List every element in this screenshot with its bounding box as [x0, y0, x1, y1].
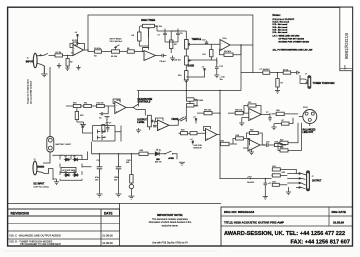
svg-text:LEVEL: LEVEL	[137, 122, 145, 124]
svg-text:R?: R?	[282, 120, 284, 122]
resistor Rt	[283, 70, 296, 75]
wire light to jack	[43, 152, 50, 163]
svg-text:R9: R9	[174, 44, 176, 46]
battery sense wire	[49, 67, 51, 137]
svg-text:R6: R6	[127, 48, 129, 50]
resistor R19	[186, 91, 203, 102]
wire net treble	[171, 31, 220, 56]
svg-text:Notes:: Notes:	[273, 13, 281, 17]
svg-text:TUNER THROUGH: TUNER THROUGH	[313, 82, 335, 85]
capacitor C4	[94, 48, 110, 58]
resistor R8 vertical	[132, 26, 141, 46]
node junction at x88	[87, 49, 88, 50]
svg-text:R27: R27	[280, 139, 283, 141]
svg-text:D2: D2	[73, 156, 75, 158]
op-amp IC1a	[71, 43, 88, 56]
+V arrow mid	[202, 67, 206, 75]
svg-text:LK / : WIRE LINK ON DRG: LK / : WIRE LINK ON DRG	[273, 35, 300, 37]
feedback rail wire top	[88, 15, 253, 73]
svg-text:+C?: +C?	[268, 183, 272, 185]
node out IC5b	[263, 144, 264, 145]
battery light BL1	[47, 137, 72, 153]
drawing number vertical box	[340, 7, 353, 70]
node A junction	[67, 55, 68, 56]
resistor R28	[278, 123, 302, 152]
feedback resistor R24	[233, 135, 250, 145]
svg-text:R1 1M: R1 1M	[56, 52, 62, 54]
svg-text:IC5 : Not used: IC5 : Not used	[273, 28, 288, 31]
svg-text:9-18V 75m cA Reg: 9-18V 75m cA Reg	[34, 185, 49, 188]
svg-text:R32: R32	[282, 172, 285, 174]
main vertical x220	[219, 91, 221, 146]
svg-text:ALL POTENTIOMETERS ARE LIN LAW: ALL POTENTIOMETERS ARE LIN LAW	[273, 49, 314, 52]
capacitor Ct	[296, 71, 301, 75]
svg-text:BASS: BASS	[188, 65, 195, 68]
ground stub on bus	[184, 80, 189, 83]
junction	[277, 72, 278, 73]
resistor R11	[81, 102, 97, 107]
ground	[104, 117, 109, 120]
resistor R22	[247, 130, 263, 145]
electrolytic C16	[95, 153, 102, 181]
wire bus down right	[264, 144, 286, 146]
svg-text:OF FILE FOR 9V? MODS: OF FILE FOR 9V? MODS	[279, 38, 305, 40]
svg-text:R11: R11	[84, 102, 87, 104]
svg-text:C5: C5	[99, 118, 101, 120]
svg-text:FROM: FROM	[172, 119, 179, 121]
ground	[65, 68, 69, 70]
ground	[170, 56, 175, 61]
resistor R1	[51, 52, 73, 57]
svg-text:R19 150k: R19 150k	[195, 100, 203, 102]
diode D4	[73, 171, 80, 176]
electrolytic C17	[114, 153, 121, 181]
ground	[286, 187, 291, 195]
resistor R12 vertical	[75, 108, 83, 122]
capacitor C7	[158, 30, 167, 38]
diode D2	[73, 156, 80, 161]
switch SW3	[175, 117, 187, 125]
ground	[128, 196, 134, 199]
svg-text:R12: R12	[80, 115, 83, 117]
op-amp IC3b	[156, 118, 176, 131]
bridge centre box	[61, 168, 76, 173]
resistor R21	[221, 140, 238, 145]
wires to XLR	[290, 114, 298, 118]
jack sleeve wire down	[43, 66, 45, 74]
svg-text:R14 47k: R14 47k	[224, 51, 231, 53]
svg-text:R33: R33	[272, 182, 275, 184]
svg-text:J?: J?	[34, 159, 36, 161]
svg-text:Use with PCB Drg No: 0701t iss: Use with PCB Drg No: 0701t iss F>	[152, 242, 189, 245]
resistor R9 vertical	[170, 31, 177, 53]
svg-text:D1: D1	[65, 156, 67, 158]
svg-text:XLR1: XLR1	[303, 107, 308, 109]
svg-text:CB CHANGED TO 10k CURB MuTl: CB CHANGED TO 10k CURB MuTl	[20, 242, 61, 246]
smoothing caps box	[83, 120, 122, 142]
svg-text:FAX: +44 1256 817 607: FAX: +44 1256 817 607	[290, 239, 350, 245]
op-amp IC5a	[204, 127, 221, 141]
svg-text:C6 LF ADJ 4n7: C6 LF ADJ 4n7	[110, 40, 123, 43]
capacitor C10b vertical	[215, 58, 223, 73]
svg-text:NOTING FOR OTHER? MODS: NOTING FOR OTHER? MODS	[279, 41, 310, 43]
+V arrow	[193, 117, 197, 124]
ground	[57, 63, 61, 68]
+V? label	[190, 139, 194, 144]
svg-text:21.08.08: 21.08.08	[102, 234, 113, 238]
switch SW2	[131, 91, 139, 108]
svg-text:R21: R21	[221, 140, 224, 142]
svg-text:exclusive owner.: exclusive owner.	[162, 225, 179, 228]
svg-text:IMPORTANT NOTE:: IMPORTANT NOTE:	[157, 213, 183, 217]
svg-text:R2: R2	[70, 62, 72, 64]
jack J3 OUTPUT	[287, 171, 313, 191]
svg-text:TITLE: 8018 ACOUSTIC GUITAR PR: TITLE: 8018 ACOUSTIC GUITAR PRE-AMP	[224, 220, 284, 224]
svg-text:This document contains proprie: This document contains proprietary	[152, 218, 189, 221]
important note block	[149, 213, 192, 245]
resistor R15 vertical	[178, 65, 188, 91]
ground	[116, 175, 122, 197]
ground	[77, 122, 86, 127]
resistor R25b under	[279, 118, 294, 126]
wire treble top net	[139, 29, 178, 47]
bottom strip top line	[8, 202, 221, 204]
op-amp IC4a	[249, 109, 268, 121]
resistor R25	[270, 110, 290, 115]
label BALANCED LINE OUT	[303, 129, 316, 135]
svg-text:R? C?: R? C?	[106, 123, 111, 125]
capacitor C8	[176, 30, 182, 38]
svg-text:12.08.08: 12.08.08	[102, 241, 113, 245]
svg-text:R17: R17	[203, 54, 206, 56]
svg-text:10u/25V: 10u/25V	[247, 182, 255, 184]
long wire lower	[220, 145, 272, 179]
notes text block	[273, 13, 314, 51]
ground	[271, 124, 278, 130]
svg-text:C18: C18	[266, 142, 269, 144]
svg-text:R28: R28	[280, 147, 283, 149]
revisions table	[8, 203, 120, 246]
svg-text:INPUT: INPUT	[26, 60, 34, 63]
resistor Rt2 vertical	[276, 73, 283, 91]
wire op1 out to network	[88, 50, 94, 52]
svg-text:BAT OK: BAT OK	[155, 160, 162, 163]
svg-text:REVISIONS: REVISIONS	[11, 212, 30, 216]
svg-text:information of which Award-Ses: information of which Award-Session is th…	[149, 221, 192, 224]
resistor R27	[278, 123, 298, 145]
node output treble	[240, 44, 241, 45]
op-amp IC1b	[143, 48, 161, 61]
junction	[186, 90, 187, 91]
wire from IC4a out	[268, 114, 270, 116]
svg-text:+V IN VOLTAGE: +V IN VOLTAGE	[62, 169, 76, 172]
svg-text:+PWR: +PWR	[168, 158, 174, 160]
pot VR3 TREBLE vertical	[185, 31, 202, 49]
svg-text:LINE OUT: LINE OUT	[303, 132, 314, 134]
svg-text:DATE: DATE	[104, 212, 112, 216]
LED D5	[155, 149, 163, 163]
svg-text:R16 10k: R16 10k	[204, 109, 211, 111]
capacitor C13t	[229, 69, 283, 74]
svg-text:AWARD-SESSION, UK. TEL: +44 12: AWARD-SESSION, UK. TEL: +44 1256 477 222	[224, 231, 345, 237]
switch SW POWER	[163, 151, 178, 160]
diode D3	[64, 171, 71, 176]
wire jack to switch	[41, 55, 44, 57]
title block	[221, 207, 353, 246]
preset pot VR1	[110, 45, 127, 58]
svg-text:8081l/GG18: 8081l/GG18	[344, 33, 350, 59]
svg-text:IC4 : Not used: IC4 : Not used	[273, 26, 288, 29]
svg-text:J?: J?	[305, 74, 307, 76]
power rail wire	[92, 153, 139, 155]
resistor R31	[272, 166, 296, 174]
resistor R10	[73, 102, 81, 107]
svg-text:CONTROLS: CONTROLS	[138, 101, 151, 103]
svg-text:R26: R26	[275, 142, 278, 144]
svg-text:R24: R24	[236, 135, 239, 137]
svg-text:C8: C8	[180, 33, 182, 35]
resistor R29 vertical w/ zener	[126, 153, 134, 196]
wires R19/C15	[186, 91, 197, 122]
XLR connector circle	[299, 107, 317, 126]
wire bass nets	[186, 60, 217, 77]
svg-text:TREBLE: TREBLE	[192, 38, 202, 41]
svg-text:R30: R30	[140, 150, 143, 152]
capacitor C18	[264, 142, 271, 148]
svg-text:iss H: iss H	[344, 65, 346, 70]
svg-text:R20 10k: R20 10k	[235, 109, 242, 111]
op-amp IC5b	[243, 139, 264, 151]
resistor R32	[272, 172, 288, 177]
svg-text:C4 470n: C4 470n	[94, 48, 101, 50]
resistor R16	[197, 109, 220, 114]
bridge box wires	[60, 155, 82, 180]
+V arrow power	[80, 124, 84, 131]
svg-text:C9 4n7: C9 4n7	[160, 61, 166, 63]
capacitor C9	[160, 54, 167, 63]
svg-text:jack secure BAT switched: jack secure BAT switched	[30, 81, 33, 105]
cap C16 label	[97, 160, 132, 162]
wire from left	[66, 105, 73, 107]
wire bridge to rail	[82, 160, 92, 167]
svg-text:C?: C?	[104, 131, 106, 133]
switch SW4	[180, 118, 187, 122]
svg-text:J?: J?	[312, 176, 314, 178]
svg-text:+ C10 10u: + C10 10u	[172, 60, 181, 62]
svg-text:C13: C13	[219, 66, 222, 68]
op-amp IC2	[220, 38, 241, 51]
svg-text:C7: C7	[158, 35, 160, 37]
svg-text:R18: R18	[181, 130, 184, 132]
svg-text:IC1,2 : Not used: IC1,2 : Not used	[273, 21, 290, 24]
svg-text:R29: R29	[126, 162, 129, 164]
svg-text:R31: R31	[272, 166, 275, 168]
svg-text:R4: R4	[94, 56, 96, 58]
resistor R18	[179, 130, 206, 135]
ground	[53, 179, 59, 185]
capacitor C19 vertical	[264, 178, 272, 190]
resistor R30	[139, 150, 155, 155]
wire to output level	[133, 108, 145, 116]
svg-text:R? 1k: R? 1k	[283, 70, 288, 72]
label HEADPHONES	[138, 98, 153, 104]
rotated note text	[27, 79, 33, 105]
label DC INPUT	[34, 184, 49, 189]
svg-text:MODS 9V: MODS 9V	[194, 147, 203, 149]
svg-text:DC INPUT: DC INPUT	[34, 184, 45, 186]
svg-text:C11: C11	[248, 102, 251, 104]
svg-text:R22: R22	[250, 130, 253, 132]
svg-text:R8: R8	[132, 35, 134, 37]
svg-text:16.08.96: 16.08.96	[333, 220, 344, 224]
svg-text:C15: C15	[195, 106, 198, 108]
resistor R33 small	[272, 182, 287, 187]
svg-text:IC3 : Not used: IC3 : Not used	[273, 23, 288, 26]
jack J1 INPUT	[27, 53, 45, 74]
ground	[275, 91, 280, 94]
ground	[263, 190, 268, 200]
resistor R6	[127, 48, 144, 53]
svg-text:R15: R15	[178, 75, 181, 77]
svg-text:C? 10u/25V: C? 10u/25V	[260, 69, 271, 71]
capacitor C14	[153, 121, 157, 127]
resistor R17 vertical	[203, 50, 213, 61]
diode D1	[64, 156, 71, 161]
ground	[249, 149, 254, 155]
ground	[97, 175, 103, 197]
svg-text:R7 10k: R7 10k	[156, 26, 162, 28]
main bus wire	[137, 90, 241, 92]
small note text	[110, 39, 123, 44]
svg-text:R10: R10	[73, 102, 76, 104]
svg-text:DRG DATE: DRG DATE	[332, 210, 347, 214]
svg-text:IC1,2,3 & 4: TL072CP: IC1,2,3 & 4: TL072CP	[273, 18, 295, 21]
switch cap cluster	[266, 112, 272, 122]
pot VR2 HIGH TREB	[140, 24, 162, 47]
svg-text:R5 10k: R5 10k	[111, 56, 117, 58]
svg-text:R12 22k: R12 22k	[97, 102, 104, 104]
+V supply arrow	[75, 32, 79, 42]
jack J2 TUNER	[300, 74, 311, 89]
note text small	[194, 145, 203, 149]
svg-text:BATTERY LIGHT: BATTERY LIGHT	[56, 143, 72, 146]
resistor R12b	[97, 102, 115, 107]
svg-text:R?: R?	[281, 83, 283, 85]
op-amp IC3a	[113, 99, 131, 114]
components below op-amp	[102, 123, 111, 133]
svg-text:Tip goes to +V battery when: Tip goes to +V battery when	[27, 79, 30, 104]
capacitor C12	[202, 40, 208, 45]
jack J4 DC INPUT	[33, 159, 48, 175]
svg-text:IC6 : Not used: IC6 : Not used	[273, 31, 288, 34]
svg-text:C12: C12	[202, 40, 205, 42]
ground	[76, 65, 80, 70]
ground	[239, 118, 249, 126]
feedback resistor R14	[220, 45, 242, 56]
pot VR5 OUTPUT LEVEL vertical	[148, 115, 155, 130]
svg-text:DRG NO: 8081l/GG18: DRG NO: 8081l/GG18	[224, 210, 255, 214]
svg-text:ISS. C - BALANCED LINE OUTPUT: ISS. C - BALANCED LINE OUTPUT ADDED	[10, 233, 61, 237]
ground	[214, 72, 219, 78]
TO label junction	[250, 178, 251, 179]
resistor R2 vertical	[66, 56, 72, 69]
svg-text:OUTPUT: OUTPUT	[312, 181, 322, 183]
capacitor C15	[187, 104, 199, 108]
svg-text:C?: C?	[104, 137, 106, 139]
ground	[179, 162, 185, 165]
feedback loop R3	[70, 40, 85, 50]
svg-text:R25: R25	[276, 110, 279, 112]
ground	[41, 74, 48, 77]
svg-text:HIGH TREB: HIGH TREB	[141, 18, 155, 22]
resistor R26	[271, 142, 287, 147]
resistor R20	[220, 109, 249, 114]
capacitor C11 feedback	[244, 102, 261, 115]
bridge rectifier frame	[48, 155, 63, 180]
svg-text:10u: 10u	[220, 79, 223, 81]
svg-text:+V10: +V10	[247, 176, 251, 178]
svg-text:C?: C?	[266, 112, 268, 114]
capacitor C5	[99, 106, 108, 120]
label OUTPUT LEVEL	[137, 119, 147, 124]
switch SW1a	[44, 53, 52, 55]
pot VR4 BASS vertical	[185, 56, 195, 68]
ground	[136, 128, 141, 133]
